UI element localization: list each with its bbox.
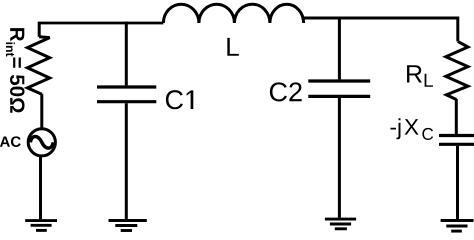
capacitor C2 top plate <box>308 79 370 82</box>
wire resistor to AC source <box>40 94 43 129</box>
ground (C1) bar 1 <box>109 219 147 222</box>
wire C1 to ground <box>125 103 128 219</box>
ground (left, source) bar 3 <box>36 229 47 232</box>
capacitor C1 top plate <box>97 85 156 88</box>
ground (left, source) bar 2 <box>31 224 52 227</box>
label L <box>227 38 238 56</box>
wire right branch top <box>456 17 459 42</box>
label C1 <box>166 90 193 109</box>
capacitor -jXc top plate <box>439 134 474 137</box>
ground (C2) bar 1 <box>325 218 356 221</box>
ground (C2) bar 2 <box>330 223 351 226</box>
wire top-left horizontal <box>39 22 163 25</box>
label AC <box>0 136 21 147</box>
resistor R_L zigzag <box>446 41 468 99</box>
label R_int = 50 ohm (rotated) <box>6 28 25 113</box>
resistor R_int zigzag <box>27 37 49 95</box>
wire C2 branch top <box>338 17 341 80</box>
label C2 <box>270 82 302 101</box>
wire left vertical (source branch top) <box>38 22 41 37</box>
label -jX_C <box>391 118 434 140</box>
ground (C1) bar 3 <box>121 229 132 232</box>
wire -jXc to ground <box>456 146 459 219</box>
wire top-right horizontal <box>302 17 458 20</box>
capacitor -jXc bottom plate <box>439 143 474 146</box>
capacitor C1 bottom plate <box>97 100 156 103</box>
ground (left, source) bar 1 <box>25 219 57 222</box>
wire C1 branch top <box>125 22 128 86</box>
ground (right) bar 3 <box>451 230 462 233</box>
capacitor C2 bottom plate <box>308 95 370 98</box>
ground (C2) bar 3 <box>335 227 347 230</box>
AC source circle U1 <box>28 129 55 156</box>
wire C2 to ground <box>338 98 341 218</box>
wire AC source to ground <box>39 156 42 219</box>
ground (C1) bar 2 <box>115 224 137 227</box>
AC sine wave inside source <box>30 137 53 149</box>
label R_L <box>407 65 433 87</box>
wire R_L to capacitor <box>455 99 458 134</box>
inductor L <box>163 4 303 23</box>
ground (right) bar 1 <box>441 219 474 222</box>
ground (right) bar 2 <box>446 225 467 228</box>
